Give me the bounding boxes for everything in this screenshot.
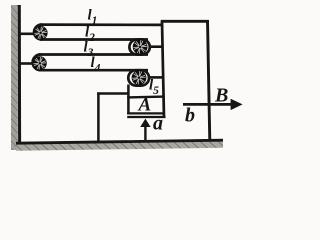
clevis stadium D (128, 70, 149, 85)
pin B (33, 56, 47, 70)
pin A (34, 26, 48, 40)
svg-text:a: a (153, 113, 163, 135)
link pin D to rod b (148, 76, 163, 79)
rod l2 (40, 38, 148, 41)
rod l1 (40, 23, 162, 26)
wall hatched strip (11, 5, 18, 150)
link pin C to rod b (149, 45, 163, 48)
tray bottom bar lower line (127, 116, 165, 118)
clevis stadium C (129, 40, 149, 55)
wall link to pin A (20, 32, 35, 35)
tray bottom bar upper line (127, 112, 164, 114)
connector clevis D to pedestal and tray (127, 85, 130, 115)
clevis cap B (33, 55, 41, 71)
pedestal top (97, 92, 129, 95)
pin D (132, 70, 147, 85)
rod b rectangle (161, 20, 210, 141)
pedestal left edge (97, 92, 100, 141)
rod l3 (39, 53, 148, 56)
wall link to pin B (20, 62, 34, 65)
background paper (0, 0, 255, 164)
svg-text:A: A (138, 95, 152, 116)
rod l4 (39, 69, 148, 72)
arrow a (140, 119, 150, 143)
clevis cap A (34, 25, 41, 40)
svg-text:B: B (214, 85, 228, 107)
tray top (block A top) (127, 95, 164, 98)
svg-text:b: b (185, 105, 195, 127)
ground hatched strip (16, 141, 223, 151)
wall face line (18, 5, 21, 143)
ground line (16, 140, 223, 143)
pin C (133, 40, 148, 55)
arrow B (183, 99, 243, 110)
